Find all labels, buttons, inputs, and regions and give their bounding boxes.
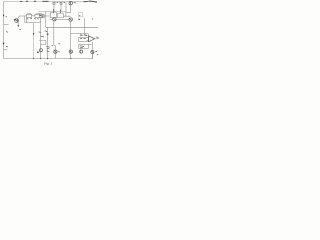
wire left supply rail [3,2,5,59]
label 56 [97,53,99,55]
wire branch lower-left [4,49,8,51]
label 34 [92,18,93,20]
resistor network left-mid vertical [45,12,47,28]
node arrow A1 on left rail [3,15,5,17]
wire yoke under F1 F2 [25,17,41,22]
wire center tap lower [33,35,35,59]
wire under boxes [44,12,70,16]
capacitor C1 [52,2,58,13]
label 32 [78,18,80,21]
wire right column upper [84,18,86,33]
transistor Q7 [91,50,97,53]
label 42 [80,34,87,37]
label 14 [6,16,8,19]
node dot near center tap [37,51,39,53]
box G1 right [79,37,89,41]
node arrow A2 on left rail [3,43,5,45]
transistor Q2 [53,18,56,21]
box F2 [35,14,43,17]
junction dots on bus [33,58,34,59]
label 30 [39,31,48,33]
wire op-amp feed [71,34,89,38]
wire branch left rail [4,23,9,25]
transistor Q4 [80,49,83,54]
wire top supply rail [4,1,98,3]
op-amp U1 [87,36,99,42]
wire between Q2 Q3 [56,18,69,20]
transistor Q8 [39,45,42,52]
wire mid bus [46,26,98,28]
wire center tap [33,23,35,34]
node arrow A3 [33,33,35,35]
label 36 [41,35,45,38]
label 20 on top rail [20,0,22,2]
wire bottom bus [4,58,94,60]
current source CS1 circle [66,2,76,13]
label 18 [6,45,8,48]
box F1 [27,14,32,17]
label 10 top right [84,1,98,2]
wire right column to bus [92,54,94,59]
label row under filter boxes [27,18,39,21]
wire collector drop [24,16,26,23]
transistor Q5 [52,44,61,54]
label 50 [46,47,49,49]
label 52 [47,50,50,53]
transistor Q1 left [14,16,25,30]
capacitor C2 [59,2,65,13]
wire column x40 [40,18,42,59]
label 24 on top rail [43,0,49,2]
wire op-amp down [92,42,94,59]
wire Q3 stem [70,18,72,59]
transistor Q6 [69,50,72,53]
label 54 [80,46,84,48]
label 38 [78,18,80,20]
wire Q2 stem [54,18,55,59]
wire second rail [39,11,66,13]
label 22 on top rail [26,0,36,2]
box G2 [79,44,89,48]
transistor Q3 [69,18,72,21]
box F5 [58,9,64,17]
node dot [47,33,49,35]
wire column x47 [47,27,49,58]
bracket lower-left of center [39,41,46,45]
wire between F1 F2 [25,15,35,17]
box F3 [39,14,44,17]
svg-text:Fig. 1: Fig. 1 [43,62,52,66]
label 28 [50,19,51,21]
box F4 [50,9,56,18]
box H1 small faint [79,13,83,17]
label 16 [6,31,8,34]
